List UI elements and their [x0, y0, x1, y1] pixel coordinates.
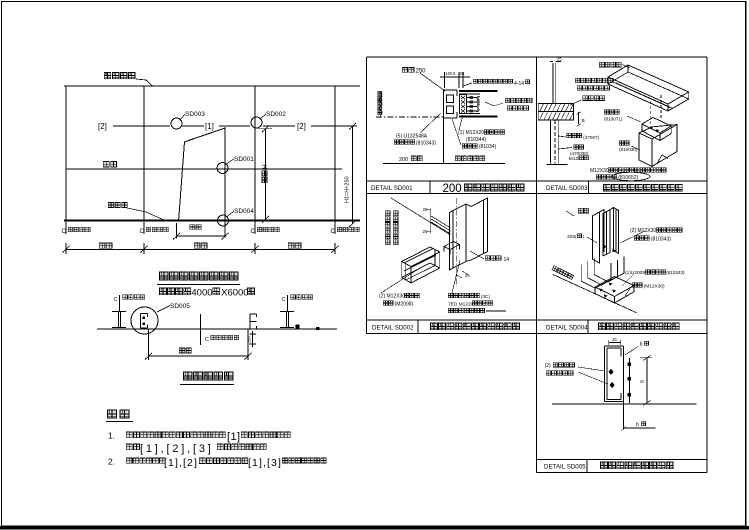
SD005 C profile web — [604, 346, 606, 402]
bottom spacing dimension row — [65, 243, 67, 254]
svg-text:(2) M12X30: (2) M12X30 — [630, 228, 656, 234]
SD003 connector label iso — [604, 110, 619, 114]
svg-text:(81034): (81034) — [479, 144, 497, 150]
SD001 door bolt 250 label — [402, 67, 414, 72]
ground line — [64, 220, 360, 222]
SD004 bolt channel right plate — [614, 208, 619, 254]
SD001 inner dim — [477, 96, 479, 112]
svg-text:(1)U2008: (1)U2008 — [625, 270, 645, 276]
svg-text:[1]: [1] — [205, 122, 214, 131]
svg-text:2.: 2. — [108, 457, 115, 467]
eave height label — [104, 73, 135, 79]
column line A — [65, 86, 67, 222]
SD005 C profile top flange — [605, 345, 624, 347]
svg-text:H1=H+250: H1=H+250 — [345, 176, 351, 203]
bolt mark — [296, 325, 300, 330]
svg-text:(810343): (810343) — [416, 141, 436, 147]
SD002 bottom left label — [381, 268, 420, 293]
svg-text:C: C — [251, 229, 256, 235]
svg-text:DETAIL SD001: DETAIL SD001 — [371, 185, 413, 192]
post 2 small dim — [252, 331, 254, 347]
svg-text:[2]: [2] — [98, 122, 107, 131]
SD003 rail cross-section hatched — [538, 104, 573, 112]
SD005 horizontal centerline — [552, 403, 697, 405]
SD003 bolt label — [559, 148, 573, 150]
SD003 door panel iso — [639, 133, 652, 166]
overall height dimension H1 — [340, 125, 357, 127]
detail bubble SD003 — [171, 118, 182, 129]
clear height dimension H — [258, 128, 272, 130]
svg-text:DETAIL SD004: DETAIL SD004 — [546, 325, 588, 332]
svg-text:(810344): (810344) — [466, 137, 486, 143]
detail grid borders — [367, 56, 708, 58]
svg-text:C: C — [140, 229, 145, 235]
door bolt centerline — [200, 314, 202, 345]
svg-text:25: 25 — [460, 71, 465, 76]
anchor centerline marks — [65, 221, 67, 235]
svg-text:7ED M1220: 7ED M1220 — [448, 302, 474, 308]
SD001 wall hatch — [379, 92, 382, 117]
svg-text:SD002: SD002 — [266, 111, 286, 118]
svg-text:M12: M12 — [569, 156, 579, 162]
svg-text:150: 150 — [247, 336, 252, 343]
svg-text:25: 25 — [465, 273, 470, 278]
elevation title — [159, 272, 238, 280]
detail bubble SD002 — [251, 117, 262, 128]
svg-text:[1],[3]: [1],[3] — [248, 457, 282, 469]
column line C — [254, 86, 256, 222]
svg-text:325(: 325( — [567, 234, 577, 240]
SD003 iso rail label — [599, 62, 621, 67]
I-beam post 1 — [112, 311, 126, 313]
SD002 bolt hole label — [470, 251, 484, 259]
svg-text:b: b — [640, 342, 643, 348]
svg-text:140.5: 140.5 — [445, 71, 456, 76]
SD003 door label — [619, 141, 629, 145]
SD003 dashed bolt lines — [650, 101, 652, 124]
SD005 bottom dim — [624, 427, 656, 429]
SD003 post with 25 dim — [552, 63, 554, 104]
SD004 bolt channel iso outer — [592, 212, 599, 263]
level label — [103, 162, 116, 167]
SD005 vertical centerline — [623, 356, 625, 429]
svg-text:C: C — [331, 229, 336, 235]
svg-text:25: 25 — [612, 337, 617, 342]
svg-text:(810071): (810071) — [604, 117, 623, 122]
svg-text:B: B — [640, 380, 645, 383]
plan spacing dimension — [148, 329, 150, 360]
SD002 bottom right label — [452, 260, 460, 293]
svg-text:SD001: SD001 — [234, 156, 254, 163]
SD002 centerline dashdot — [456, 198, 458, 287]
svg-text:DETAIL SD002: DETAIL SD002 — [372, 325, 414, 332]
SD001 weld part label — [420, 113, 441, 133]
anchor mark 1 — [119, 295, 121, 311]
svg-text:(2) M12X30: (2) M12X30 — [379, 294, 405, 300]
svg-text:4-14: 4-14 — [514, 81, 524, 87]
svg-text:(810343): (810343) — [666, 270, 685, 275]
SD003 rail label — [583, 96, 605, 101]
svg-text:B: B — [582, 118, 585, 124]
plan title — [183, 372, 232, 380]
svg-text:C: C — [114, 297, 118, 303]
svg-text:(810343): (810343) — [651, 237, 671, 243]
svg-text:C: C — [205, 337, 209, 343]
SD002 25 dims — [430, 209, 432, 234]
title bar SD005 — [586, 460, 588, 473]
SD005 C profile bottom flange — [605, 401, 624, 403]
detail bubble SD004 — [218, 215, 229, 226]
SD001 C profile — [444, 90, 458, 118]
svg-text:(M12X30): (M12X30) — [644, 284, 665, 290]
C channel in bubble — [140, 314, 142, 329]
svg-text:SD004: SD004 — [234, 208, 254, 215]
SD001 rail top flange — [459, 90, 498, 92]
svg-text:[1],[2]: [1],[2] — [164, 457, 198, 469]
elevation subtitle max size 4000x6000 — [159, 288, 190, 295]
column line D — [334, 86, 336, 222]
SD002 connect plate — [444, 242, 460, 250]
SD004 right label — [620, 231, 645, 243]
svg-text:C: C — [62, 229, 67, 235]
door width dimension — [176, 223, 178, 239]
SD002 leader diagonal — [391, 198, 449, 234]
SD002 rail iso double C — [402, 247, 440, 267]
SD004 channel bolt marks — [604, 245, 607, 249]
anchor mark 2 — [287, 295, 289, 311]
C channel post 2 — [249, 314, 251, 329]
svg-text:(3C): (3C) — [481, 294, 491, 300]
title bar SD003 — [588, 181, 590, 194]
title bar SD002 — [417, 320, 419, 334]
SD003 connector label — [559, 136, 566, 137]
svg-text:(47007): (47007) — [583, 135, 599, 140]
svg-text:M12X30,: M12X30, — [590, 168, 610, 174]
SD005 bolt diamonds — [608, 369, 613, 375]
SD002 vertical note text — [385, 211, 390, 245]
SD004 nested saddle brackets — [581, 263, 611, 288]
svg-text:(1) M12X20: (1) M12X20 — [458, 130, 484, 136]
level line [2] row — [113, 125, 170, 127]
SD001 rail bottom flange — [459, 115, 498, 117]
I-beam post 2 — [280, 311, 294, 313]
svg-text:200: 200 — [399, 157, 408, 163]
SD003 bracket below rail — [550, 120, 552, 164]
svg-text:(M2008): (M2008) — [395, 302, 414, 308]
SD004 bolt channel inner — [603, 210, 610, 257]
SD003 connector bracket iso — [642, 118, 671, 134]
eave line — [64, 85, 360, 87]
SD003 bottom tick — [547, 164, 568, 166]
svg-text:4000: 4000 — [191, 288, 212, 299]
SD004 top label — [578, 208, 589, 213]
svg-text:200: 200 — [443, 183, 462, 195]
SD001 rail leader and label — [485, 102, 494, 106]
svg-text:X6000: X6000 — [221, 288, 248, 299]
note 1 line 2 — [126, 444, 139, 450]
svg-text:SD005: SD005 — [170, 303, 190, 310]
svg-text:1.: 1. — [108, 431, 115, 441]
svg-text:25: 25 — [557, 57, 562, 62]
svg-text:14: 14 — [504, 257, 510, 263]
SD003 top note — [575, 78, 613, 82]
SD001 centerline — [376, 116, 443, 118]
title bar SD001 — [429, 181, 431, 194]
door leaf outline — [179, 128, 225, 220]
steel line label — [108, 202, 127, 207]
detail bubble SD001 — [217, 163, 228, 174]
SD001 bolt label — [459, 115, 463, 130]
svg-text:[1]: [1] — [227, 431, 240, 443]
SD001 gypsum label — [452, 119, 461, 145]
svg-text:DETAIL SD003: DETAIL SD003 — [546, 185, 588, 192]
SD002 small dims — [462, 271, 468, 275]
svg-text:[2]: [2] — [297, 122, 306, 131]
svg-text:(5) U132548A: (5) U132548A — [396, 134, 428, 140]
SD001 hole note leader — [463, 83, 472, 86]
SD001 top dimension — [444, 72, 446, 88]
title bar SD004 — [587, 320, 589, 334]
SD005 right dim — [646, 358, 648, 403]
SD004 baseline diagonal — [553, 274, 637, 312]
svg-text:DETAIL SD005: DETAIL SD005 — [544, 464, 586, 471]
svg-text:140: 140 — [476, 98, 481, 106]
SD004 plate labels — [622, 274, 634, 286]
SD001 base line — [383, 163, 505, 165]
plan main line — [97, 328, 337, 330]
SD004 rotated label — [552, 266, 574, 280]
SD002 25 tick bracket — [427, 209, 431, 211]
end dot — [316, 327, 320, 330]
SD001 bolt plate — [460, 95, 467, 114]
svg-text:[1],[2],[3]: [1],[2],[3] — [140, 443, 214, 455]
SD005 bolt squares line — [628, 358, 630, 403]
SD002 bolt lines — [431, 216, 450, 228]
svg-text:(2): (2) — [545, 363, 551, 369]
mid level line — [66, 168, 342, 170]
svg-text:(470030): (470030) — [570, 151, 589, 156]
column line B — [143, 86, 145, 222]
svg-text:SD003: SD003 — [185, 111, 205, 118]
SD003 B dimension — [578, 112, 580, 124]
SD004 base plate iso — [595, 277, 634, 297]
svg-text:H: H — [262, 164, 269, 169]
svg-text:C: C — [282, 297, 286, 303]
SD002 column plate iso — [449, 204, 466, 270]
detail bubble SD005 plan — [131, 307, 158, 334]
SD005 top dim — [609, 342, 621, 344]
notes heading — [108, 410, 130, 418]
svg-text:b: b — [636, 422, 639, 428]
SD003 iso double C rail — [608, 65, 689, 104]
